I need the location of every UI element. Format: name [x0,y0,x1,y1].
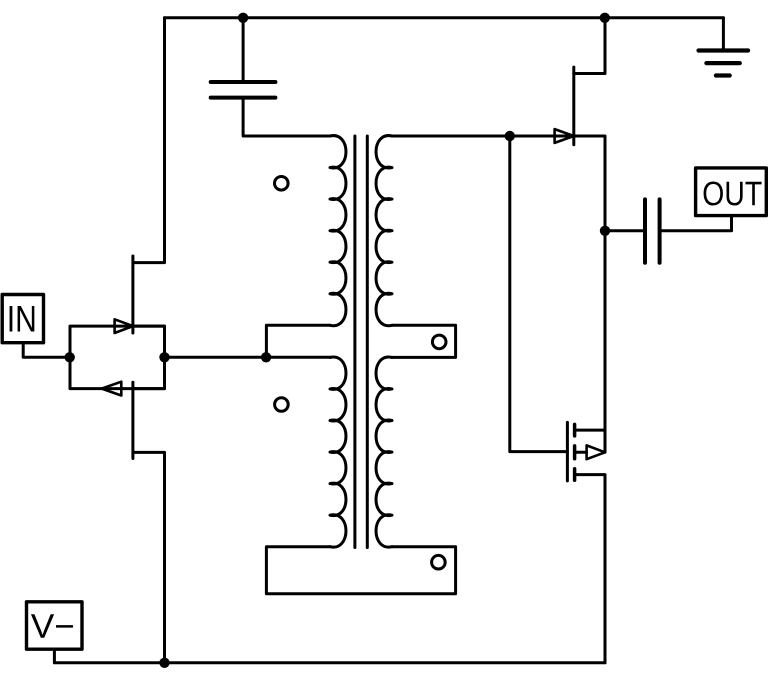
ground [699,18,749,76]
transistor Q4 channel dashes [573,424,577,480]
phase dot upper primary [275,177,289,191]
transistor Q3 gate arrow [555,129,574,143]
phase dot lower primary [275,398,289,412]
wire winding bottom loop [266,547,455,594]
wire V- lead [53,649,56,663]
wire C2 to OUT box [660,216,732,231]
wire top rail [165,16,724,19]
transistor Q1 gate arrow [115,319,133,333]
junction dot IN node [65,352,75,362]
label IN [10,306,13,331]
port OUT box [696,168,767,216]
transformer T1 secondary upper winding [376,136,392,326]
wire loop to center tap [165,356,267,359]
transistor Q2 gate arrow [102,382,122,396]
wire Q4 source to bottom rail [575,475,605,663]
junction dot (C1 / top rail) [238,13,248,23]
junction dot OUT node [600,226,610,236]
wire Q2 source [133,357,165,388]
transistor Q4 (MOSFET) gate bar [566,422,569,481]
transistor Q3 (n-JFET) channel bar [572,67,575,145]
transistor Q4 body arrow [575,445,605,459]
wire Q4 drain [575,231,605,452]
phase dot secondary middle [432,335,446,349]
wire secondary top to Q3 gate [392,135,574,138]
transformer T1 core [355,136,367,548]
label OUT [704,181,723,205]
wire secondary middle loop [392,325,456,357]
transformer T1 primary lower winding [330,357,346,547]
wire Q2 drain to bottom rail [133,452,165,662]
wire C1 to primary top [243,98,330,136]
wire IN lead [23,343,69,358]
wire bottom rail [54,661,605,664]
label V- [31,614,54,637]
port IN box [2,295,43,343]
junction dot bottom rail [159,658,169,668]
junction dot loop right [159,352,169,362]
phase dot bottom loop [432,555,446,569]
wire primary center tap [266,325,330,357]
transistor Q1 (n-JFET) channel bar [131,256,134,333]
port V- box [27,602,83,649]
wire Q3 source [574,136,605,231]
capacitor C1 [211,82,276,98]
junction dot gate node [505,131,515,141]
wire Q1 drain to top rail [133,18,165,263]
wire OUT node to C2 [605,229,645,232]
wire Q4 gate feed [510,136,568,452]
transformer T1 primary upper winding [330,136,346,326]
wire C1 top lead [242,18,245,82]
transformer T1 secondary lower winding [376,357,392,547]
wire Q1 source [133,326,165,357]
junction dot center tap [261,352,271,362]
wire Q3 drain to top rail [574,18,605,74]
input gate loop [70,326,165,389]
capacitor C2 [645,199,660,262]
junction dot (Q3 drain / top rail) [600,13,610,23]
transistor Q2 (p-JFET) channel bar [131,382,134,458]
